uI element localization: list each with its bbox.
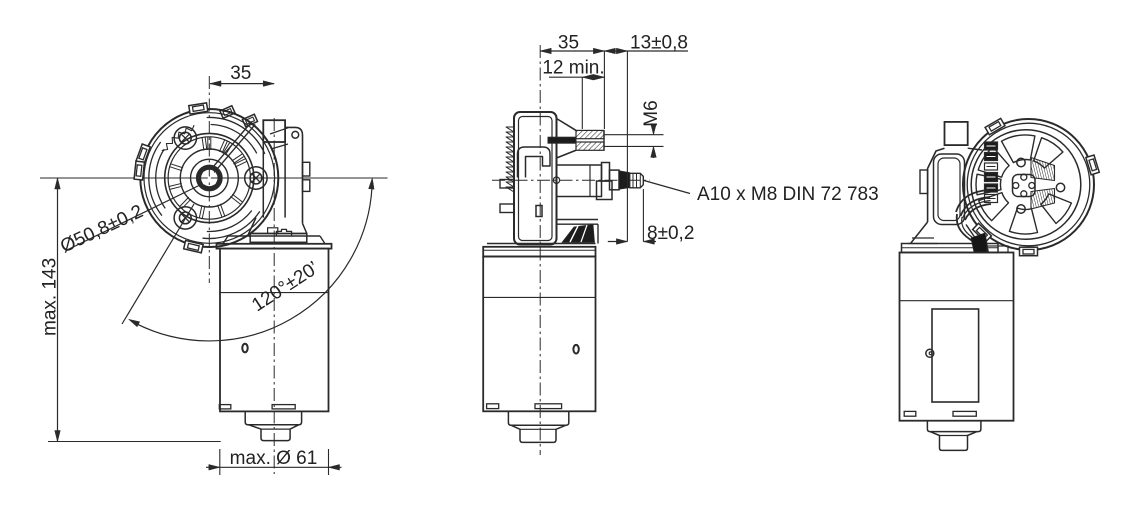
motor vent oval: [242, 344, 247, 353]
gearbox bottom left slant: [223, 236, 228, 244]
threaded tube upper wall (hatched): [576, 130, 604, 138]
rear motor body: [900, 253, 1014, 421]
hub shaft slot marks: [203, 172, 215, 184]
bracket foot notch: [268, 228, 278, 234]
bracket latch clip lower: [303, 180, 310, 192]
hub cross circle right: [1029, 183, 1035, 189]
housing-to-bracket line lower: [271, 144, 288, 149]
bolt boss 2 (angle -121): [174, 127, 196, 149]
ext line x=627.4: [626, 51, 628, 242]
wheel cutout sector 7: [1041, 194, 1072, 224]
dim 35/13 top line: [540, 50, 688, 52]
side view shaft axis centerline: [492, 179, 650, 181]
dim max dia61 right arrow: [329, 465, 340, 471]
rear bracket inner panel 2: [938, 158, 960, 221]
svg-text:max. Ø 61: max. Ø 61: [230, 448, 318, 469]
crank lever pad 2: [242, 114, 257, 127]
dim 12min line: [549, 76, 604, 78]
wheel cutout sector 2: [1034, 138, 1063, 168]
M6 arrow line upper: [653, 124, 655, 135]
dim 8 line: [608, 241, 628, 243]
dim 13 right arrow: [616, 48, 627, 54]
wheel cutout sector 5: [979, 193, 1009, 221]
housing clip tab 3: [134, 161, 144, 180]
housing-to-bracket line upper: [270, 128, 288, 134]
gear housing inner flange circle: [144, 113, 275, 244]
gearbox plate inner line: [519, 117, 553, 241]
window arc lower outer: [203, 212, 260, 239]
hub shaft dark ring: [199, 167, 221, 189]
rear tower box: [945, 122, 968, 145]
motor end cap upper (side): [508, 411, 568, 425]
gearbox bottom step upper line: [557, 219, 599, 221]
ext line x=604.4: [603, 51, 605, 129]
dim 35 (front) line: [210, 83, 274, 85]
bracket latch clip upper: [303, 162, 310, 176]
gearbox bottom right slant: [320, 236, 325, 244]
hub cross circle left: [1013, 183, 1019, 189]
rear bracket outline: [928, 148, 945, 222]
shaft bearing boss upper: [602, 163, 610, 182]
rear end cap inner line: [940, 435, 968, 437]
motor body outline (side): [483, 257, 595, 412]
gearbox mounting plate: [514, 112, 557, 245]
shaft bearing boss lower: [597, 181, 613, 200]
bracket column right line: [284, 142, 286, 218]
front view motor centerline: [273, 118, 275, 474]
motor end cap upper: [245, 411, 301, 424]
gearbox bearing block: [557, 165, 602, 197]
rear motor panel: [932, 309, 979, 402]
housing clip tab 4: [184, 240, 203, 252]
crank lever pad 1: [220, 106, 235, 119]
gearbox bearing block inner line: [589, 165, 591, 197]
arc 120deg top arrow: [369, 178, 375, 189]
dim 12min left arrow: [582, 74, 593, 80]
wire harness dark wedge: [971, 233, 989, 252]
shaft thread M8: [630, 173, 644, 188]
svg-text:8±0,2: 8±0,2: [647, 223, 694, 244]
dim 35 (front) right arrow: [263, 81, 274, 87]
svg-text:12 min.: 12 min.: [542, 58, 604, 79]
dim 35 right arrow (side): [593, 48, 604, 54]
bracket ear hole: [292, 131, 299, 138]
dim 8 left arrow: [616, 239, 627, 245]
terminal comb fins: [506, 127, 514, 192]
connector terminal stack: [985, 142, 998, 203]
plate clip hook: [518, 147, 551, 178]
bracket foot flare: [249, 218, 307, 234]
svg-text:35: 35: [230, 63, 251, 84]
shaft collar: [610, 170, 620, 190]
shaft thread lines: [633, 173, 640, 188]
motor body outline: [220, 249, 329, 412]
side view centerline vertical: [539, 45, 541, 455]
rear end cap taper: [930, 432, 977, 451]
M6 reference line upper: [605, 134, 664, 136]
bracket column left line: [262, 142, 264, 218]
wheel small circle top: [1017, 158, 1025, 166]
motor brush tab center (side): [535, 404, 562, 409]
wheel cutout sector 4: [976, 174, 1001, 195]
M6 arrow lower: [651, 146, 657, 157]
rear clip tab 2: [1086, 155, 1099, 175]
bracket pedestal: [250, 234, 307, 243]
motor brush tab left: [219, 405, 231, 409]
rear clip tab 4: [973, 223, 992, 242]
wheel small circle bottom: [1017, 205, 1025, 213]
rear brush tab left: [904, 411, 916, 416]
rear cover inner circle: [967, 123, 1090, 246]
rear brush tab center: [953, 411, 976, 416]
rear bracket left tab: [920, 170, 928, 194]
gearbox bottom step right edge: [597, 224, 599, 243]
wheel small circle right: [1056, 183, 1064, 191]
rear bracket top right line: [968, 148, 982, 150]
dim max143 vertical line: [57, 178, 59, 442]
harness clamp: [987, 246, 1008, 252]
window arc upper outer: [207, 117, 264, 153]
window arc left outer: [149, 142, 162, 215]
hub cross circle bottom: [1021, 191, 1027, 197]
motor body seam line: [220, 292, 329, 294]
rear cover outer circle: [963, 119, 1094, 250]
dim max dia61 ext left: [219, 449, 221, 475]
dim 35 left arrow (side): [540, 48, 551, 54]
dim 13 left arrow: [604, 48, 615, 54]
leader line dia 50,8: [66, 185, 201, 251]
threaded tube end face: [603, 130, 605, 150]
terminal tab lower: [500, 204, 514, 213]
rear wheel rim circle: [971, 130, 1081, 240]
M6 arrow upper: [651, 124, 657, 135]
window arc upper: [211, 125, 256, 153]
M6 reference line lower: [605, 145, 664, 147]
terminal tab upper: [500, 180, 514, 189]
rear motor seam: [900, 300, 1014, 302]
motor flange band: [217, 244, 332, 249]
bracket top box: [263, 120, 285, 142]
window arc left: [156, 150, 165, 208]
front view gear housing: horizontal reference line / 120-deg leg: [40, 177, 388, 179]
wheel cutout sector 6: [1009, 208, 1037, 234]
ext line x=582.3 (12min): [581, 77, 583, 129]
motor end cap inner line (side): [520, 428, 556, 430]
threaded tube lower wall (hatched): [576, 142, 604, 150]
rear clip tab 1: [985, 118, 1005, 134]
motor flange band midline: [483, 249, 595, 251]
dim max143 bottom arrow: [55, 431, 61, 442]
bolt boss 3 (angle 121): [174, 207, 196, 229]
motor end cap inner line: [261, 428, 290, 430]
dim max dia61 line: [206, 466, 342, 468]
hub cross plate: [1013, 175, 1036, 197]
motor vent oval (side): [573, 345, 578, 354]
motor brush tab center: [272, 405, 295, 409]
wire bundle: [956, 190, 991, 242]
harness wedge white slash 2: [581, 225, 587, 242]
worm screw dark band: [548, 137, 576, 143]
motor end cap taper: [249, 425, 299, 441]
rear motor screw circle: [926, 349, 934, 357]
rear bracket foot step line 1: [912, 237, 934, 239]
dim max143 bottom reference line: [48, 441, 221, 443]
hub outer ring: [180, 149, 238, 207]
gearbox bottom notch: [276, 229, 291, 236]
cone to tube upper: [557, 119, 577, 131]
wheel spokes: [169, 137, 247, 219]
hub middle ring: [191, 159, 229, 197]
gearbox bottom flange line: [487, 243, 596, 245]
wheel rim inner circle: [168, 137, 250, 219]
plate small circle on axis: [553, 177, 559, 183]
gearbox bottom edge line: [228, 235, 320, 237]
svg-text:M6: M6: [641, 100, 662, 126]
bracket ear plate: [285, 127, 302, 223]
svg-text:max. 143: max. 143: [40, 258, 61, 336]
M6 arrow line lower: [653, 146, 655, 158]
housing clip tab 2: [136, 144, 150, 164]
window arc lower: [207, 211, 251, 232]
motor end cap taper (side): [511, 425, 566, 442]
bolt boss 1 (angle 0): [245, 167, 267, 189]
worm teeth wedge upper (hatched): [1031, 158, 1055, 181]
rear bracket inner panel: [934, 154, 965, 225]
cone to tube lower: [557, 150, 577, 158]
dim 35 (front) left arrow: [210, 81, 221, 87]
crank lever bar: [211, 122, 255, 173]
hub cross circle top: [1021, 174, 1027, 180]
dim 8 right arrow line: [643, 241, 656, 243]
rear clip tab 3: [1020, 247, 1038, 256]
leader A10: [644, 181, 690, 194]
rear bracket foot right: [966, 225, 979, 244]
dim max dia61 left arrow: [209, 465, 220, 471]
gear housing outer flange circle: [140, 109, 278, 247]
dim max dia61 ext right: [328, 449, 330, 475]
motor brush tab left (side): [487, 404, 499, 409]
arc 120deg bottom arrow: [129, 319, 140, 327]
harness wedge white slash: [570, 226, 578, 242]
rear bracket foot left: [911, 222, 928, 244]
svg-text:35: 35: [558, 33, 579, 54]
rear flange band: [902, 244, 999, 253]
dim max143 top arrow: [55, 178, 61, 189]
gearbox bottom step lower line: [557, 223, 599, 225]
housing clip tab 1: [189, 103, 208, 114]
dim 8 right arrow: [643, 239, 654, 245]
svg-text:13±0,8: 13±0,8: [630, 33, 688, 54]
worm teeth wedge lower (hatched): [1031, 189, 1055, 210]
wheel cutout sector 1: [1002, 135, 1035, 163]
motor body seam (side): [483, 296, 595, 298]
svg-text:A10 x M8 DIN 72 783: A10 x M8 DIN 72 783: [697, 184, 879, 205]
motor flange band (side): [483, 247, 595, 257]
wheel cutout sector 3: [978, 147, 1009, 177]
rear motor screw inner: [929, 352, 932, 355]
arc 120deg: [135, 187, 372, 341]
plate slot: [536, 206, 542, 217]
front view vertical centerline (gear axis): [208, 76, 210, 283]
line 120deg leg: [122, 204, 194, 324]
rear flange band midline: [902, 247, 999, 249]
ratchet teeth segment (upper-left): [162, 125, 194, 150]
wheel rim outer circle: [165, 133, 254, 222]
harness dark wedge: [562, 225, 595, 243]
dim 12min right arrow: [593, 74, 604, 80]
ext line x=643.4 (8dim): [642, 189, 644, 242]
shaft knurl (dark): [619, 171, 630, 189]
rear end cap upper: [927, 421, 981, 432]
rear bracket foot step line 2: [908, 243, 938, 245]
